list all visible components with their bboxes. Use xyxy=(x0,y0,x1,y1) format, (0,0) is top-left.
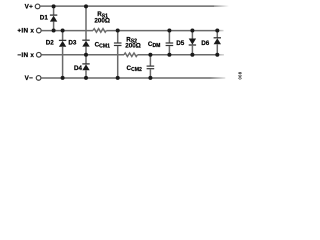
wire +IN rail right xyxy=(106,30,217,32)
node +IN/D6 xyxy=(215,29,219,33)
svg-text:CCM1: CCM1 xyxy=(95,42,110,50)
svg-text:D4: D4 xyxy=(74,65,83,72)
svg-text:D2: D2 xyxy=(46,40,55,47)
node +IN/CCM1 xyxy=(116,29,120,33)
node V+/D3 xyxy=(84,4,88,8)
terminal -IN xyxy=(36,52,41,57)
capacitor CDM xyxy=(166,31,174,55)
node V-/CCM1 xyxy=(116,76,120,80)
diode D2 xyxy=(59,31,66,78)
node V-/CCM2 xyxy=(148,76,152,80)
svg-text:CDM: CDM xyxy=(148,41,160,49)
svg-text:D3: D3 xyxy=(68,40,77,47)
wire -IN rail right xyxy=(137,54,217,56)
node V-/D2 xyxy=(61,76,65,80)
node -IN/CCM2 xyxy=(148,53,152,57)
node +IN/CDM xyxy=(167,29,171,33)
svg-text:+IN x: +IN x xyxy=(17,28,34,35)
diode D1 xyxy=(50,6,57,30)
capacitor CCM2 xyxy=(147,55,155,78)
wire V- rail fade end xyxy=(210,77,225,79)
node -IN/D3 D4 xyxy=(84,53,88,57)
wire V- rail xyxy=(41,77,210,79)
svg-text:−IN x: −IN x xyxy=(17,52,34,59)
svg-text:V+: V+ xyxy=(25,4,33,11)
svg-text:008: 008 xyxy=(238,71,243,79)
node +IN/D5 xyxy=(190,29,194,33)
wire V+ rail fade end xyxy=(214,5,229,7)
capacitor CCM1 xyxy=(114,31,122,78)
wire -IN rail fade end xyxy=(217,54,224,56)
wire V+ rail xyxy=(40,5,214,7)
terminal +IN xyxy=(36,28,41,33)
wire +IN rail left xyxy=(41,30,93,32)
node +IN/D2 xyxy=(61,29,65,33)
svg-text:200Ω: 200Ω xyxy=(94,18,110,25)
diode D6 xyxy=(214,31,221,55)
node V-/D4 xyxy=(84,76,88,80)
node -IN/D6 xyxy=(215,53,219,57)
svg-text:D1: D1 xyxy=(40,15,49,22)
svg-text:D5: D5 xyxy=(176,40,185,47)
resistor RS2 xyxy=(124,53,137,57)
node -IN/CDM xyxy=(167,53,171,57)
node -IN/D5 xyxy=(190,53,194,57)
diode D4 xyxy=(82,55,89,78)
wire -IN rail left xyxy=(41,54,124,56)
svg-text:200Ω: 200Ω xyxy=(125,43,141,50)
node V+/D1 xyxy=(52,4,56,8)
terminal V- xyxy=(36,76,41,81)
svg-text:CCM2: CCM2 xyxy=(127,65,142,73)
diode D5 xyxy=(189,31,196,55)
svg-text:V−: V− xyxy=(25,75,33,82)
svg-text:D6: D6 xyxy=(201,40,210,47)
resistor RS1 xyxy=(93,29,106,33)
diode D3 xyxy=(82,6,89,54)
terminal V+ xyxy=(35,4,40,9)
wire +IN rail fade end xyxy=(217,30,223,32)
node +IN/D1 xyxy=(52,29,56,33)
